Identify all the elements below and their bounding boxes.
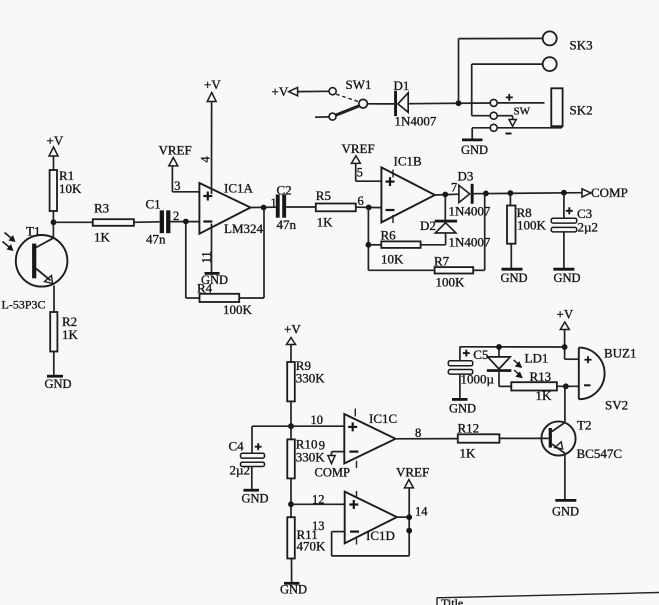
svg-text:+V: +V — [557, 307, 574, 322]
svg-text:C2: C2 — [277, 183, 292, 198]
svg-text:C5: C5 — [473, 347, 488, 362]
svg-text:R13: R13 — [530, 369, 552, 384]
svg-text:R6: R6 — [381, 228, 397, 243]
svg-text:1K: 1K — [460, 446, 477, 461]
svg-text:1K: 1K — [317, 215, 334, 230]
svg-text:14: 14 — [415, 505, 428, 519]
svg-text:GND: GND — [280, 583, 307, 597]
svg-text:2µ2: 2µ2 — [578, 220, 599, 235]
svg-text:IC1D: IC1D — [366, 528, 395, 543]
svg-text:47n: 47n — [146, 232, 166, 247]
svg-text:100K: 100K — [223, 302, 253, 317]
svg-text:SK2: SK2 — [570, 103, 593, 118]
svg-text:SW: SW — [514, 106, 531, 118]
svg-text:D2: D2 — [420, 218, 436, 233]
svg-text:GND: GND — [45, 377, 72, 391]
svg-text:1K: 1K — [62, 327, 79, 342]
svg-text:LD1: LD1 — [525, 351, 549, 366]
svg-text:GND: GND — [461, 143, 488, 157]
svg-text:2µ2: 2µ2 — [230, 463, 251, 478]
svg-text:L-53P3C: L-53P3C — [2, 298, 46, 312]
svg-text:10K: 10K — [381, 252, 404, 267]
svg-text:VREF: VREF — [159, 143, 192, 158]
svg-text:BUZ1: BUZ1 — [604, 346, 637, 361]
svg-text:330K: 330K — [296, 371, 326, 386]
svg-text:COMP: COMP — [591, 185, 628, 200]
svg-text:330K: 330K — [296, 450, 326, 465]
svg-text:IC1C: IC1C — [369, 411, 397, 426]
svg-text:7: 7 — [451, 181, 457, 195]
svg-text:R7: R7 — [434, 253, 450, 268]
svg-text:R3: R3 — [94, 201, 109, 216]
svg-text:IC1B: IC1B — [394, 154, 423, 169]
svg-text:11: 11 — [200, 251, 214, 263]
svg-text:4: 4 — [199, 156, 213, 163]
svg-text:COMP: COMP — [315, 465, 350, 479]
svg-text:100K: 100K — [436, 275, 466, 290]
svg-text:VREF: VREF — [396, 464, 429, 479]
svg-text:470K: 470K — [297, 539, 327, 554]
svg-text:2: 2 — [173, 209, 179, 223]
svg-text:VREF: VREF — [342, 141, 375, 156]
svg-text:LM324: LM324 — [224, 221, 264, 236]
svg-text:+V: +V — [272, 84, 289, 99]
svg-text:Title: Title — [441, 596, 463, 605]
svg-text:SK3: SK3 — [570, 38, 593, 53]
svg-text:R4: R4 — [197, 281, 213, 296]
svg-text:+V: +V — [204, 77, 221, 92]
svg-text:T2: T2 — [577, 418, 591, 433]
svg-text:C4: C4 — [229, 439, 245, 454]
svg-text:3: 3 — [174, 179, 180, 193]
svg-text:47n: 47n — [277, 217, 297, 232]
svg-text:D3: D3 — [458, 169, 474, 184]
svg-text:BC547C: BC547C — [577, 446, 623, 461]
svg-text:1K: 1K — [94, 230, 111, 245]
svg-text:SW1: SW1 — [346, 77, 372, 92]
svg-text:8: 8 — [415, 426, 421, 440]
svg-text:1000µ: 1000µ — [461, 372, 495, 387]
svg-text:R5: R5 — [316, 188, 331, 203]
svg-text:1K: 1K — [536, 388, 553, 403]
svg-text:GND: GND — [501, 271, 528, 285]
svg-text:R12: R12 — [458, 421, 480, 436]
svg-text:GND: GND — [552, 504, 579, 518]
svg-text:D1: D1 — [394, 78, 410, 93]
svg-text:GND: GND — [449, 402, 476, 416]
svg-text:10: 10 — [311, 413, 324, 427]
svg-text:SV2: SV2 — [605, 398, 628, 413]
svg-text:+V: +V — [284, 322, 301, 337]
svg-text:5: 5 — [357, 166, 363, 180]
svg-text:100K: 100K — [517, 218, 547, 233]
svg-text:GND: GND — [554, 271, 581, 285]
svg-text:6: 6 — [358, 194, 364, 208]
svg-text:T1: T1 — [26, 224, 40, 239]
svg-text:10K: 10K — [59, 181, 82, 196]
svg-text:IC1A: IC1A — [224, 181, 254, 196]
svg-text:12: 12 — [312, 493, 325, 507]
svg-text:GND: GND — [242, 491, 269, 505]
svg-text:+V: +V — [47, 133, 64, 148]
svg-text:C1: C1 — [146, 197, 161, 212]
svg-text:1N4007: 1N4007 — [395, 114, 437, 129]
